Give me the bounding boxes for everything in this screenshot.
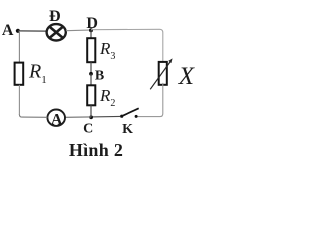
svg-text:B: B [95, 68, 104, 83]
node C junction dot [89, 115, 93, 119]
wire: bottom-left corner to ammeter [19, 114, 47, 117]
node B junction dot [89, 72, 93, 76]
wire: R3 to node B [90, 62, 92, 74]
wire: node A to lamp (top-left) [18, 30, 46, 32]
resistor X (variable) [150, 58, 172, 89]
resistor R1 [15, 63, 24, 85]
svg-text:A: A [51, 111, 63, 128]
svg-text:K: K [122, 122, 133, 137]
resistor R2 [87, 85, 95, 105]
ammeter A [47, 110, 65, 129]
node A junction dot [16, 29, 20, 33]
resistor R3 [87, 38, 95, 62]
node D junction dot [89, 28, 93, 32]
wire: X down to bottom-right corner to switch [137, 83, 163, 117]
svg-text:Hình 2: Hình 2 [69, 140, 123, 160]
svg-text:X: X [178, 63, 196, 90]
wire: node B to R2 [90, 74, 92, 86]
wire: node D to top-right corner down to X [91, 29, 163, 61]
switch K [120, 108, 139, 118]
svg-text:A: A [2, 22, 14, 39]
lamp Đ [47, 24, 66, 40]
wire: R1 down to bottom-left corner [18, 85, 20, 115]
wire: node D down to R3 [90, 30, 92, 38]
wire: ammeter to node C [65, 116, 91, 118]
wire: R2 to node C [90, 105, 92, 117]
wire: node C to switch [91, 115, 120, 118]
wire: node A down to R1 [18, 31, 20, 62]
wire: lamp to node D [66, 29, 89, 32]
svg-text:C: C [83, 121, 93, 136]
svg-text:Đ: Đ [49, 8, 61, 25]
